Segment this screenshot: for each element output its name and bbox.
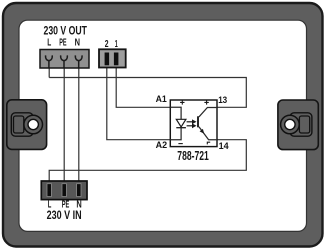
LED D1 triangle [176, 119, 186, 127]
phototransistor Q1 collector [199, 108, 217, 117]
LED D1 cathode bar [176, 127, 186, 129]
polarity + at A1 [180, 100, 184, 104]
right mounting tab [278, 100, 318, 150]
wire: N vertical [78, 66, 80, 184]
terminal pin PE in [62, 184, 66, 197]
terminal pin L in [47, 184, 51, 197]
connector block 230V OUT [40, 50, 89, 69]
svg-text:14: 14 [219, 141, 230, 152]
connector block switch input 2/1 [99, 49, 126, 67]
svg-text:N: N [75, 38, 80, 49]
phototransistor Q1 emitter [199, 127, 217, 140]
polarity + at 13 [204, 100, 208, 104]
svg-text:13: 13 [218, 95, 227, 106]
clamp terminal PE out [61, 55, 68, 67]
left mounting tab [7, 100, 47, 150]
mark at 14 [207, 142, 210, 144]
optocoupler light arrow upper [187, 119, 197, 124]
wire: PE vertical [63, 66, 65, 184]
svg-text:1: 1 [115, 39, 118, 50]
wire: terminal 1 to A1 [116, 64, 170, 107]
right tab screw hole [281, 115, 300, 134]
svg-text:A2: A2 [156, 140, 168, 151]
svg-text:2: 2 [105, 39, 109, 50]
wire: net L_out to contact 13 (top horizontal, right drop) [49, 78, 246, 108]
wire: contact 14 to L in (right drop, bottom horizontal) [49, 140, 246, 184]
LED D1 cathode lead [170, 128, 181, 140]
phototransistor Q1 base bar [197, 116, 199, 127]
wire: L out drop to main horizontal [48, 66, 50, 78]
terminal pin N in [77, 184, 81, 197]
svg-text:PE: PE [59, 38, 67, 49]
relay module U1 body [170, 100, 217, 147]
svg-text:230 V IN: 230 V IN [47, 208, 82, 222]
clamp terminal N out [75, 55, 82, 67]
left tab screw hole [24, 115, 43, 134]
clamp terminal L out [46, 55, 53, 67]
svg-text:A1: A1 [156, 94, 168, 105]
svg-text:L: L [47, 38, 51, 49]
terminal pin 2 [105, 53, 110, 66]
svg-text:788-721: 788-721 [177, 148, 209, 163]
polarity - at A2 [178, 143, 182, 145]
right tab screw slot [290, 113, 312, 136]
left tab screw slot [11, 113, 33, 136]
optocoupler light arrow lower [187, 123, 197, 128]
connector block 230V IN [41, 181, 87, 200]
phototransistor Q1 emitter arrow [200, 129, 205, 134]
svg-text:230 V OUT: 230 V OUT [44, 24, 88, 38]
LED D1 anode lead [170, 107, 181, 119]
terminal pin 1 [114, 53, 119, 66]
wire: terminal 2 to A2 [107, 64, 171, 140]
enclosure inner opening [19, 20, 307, 231]
